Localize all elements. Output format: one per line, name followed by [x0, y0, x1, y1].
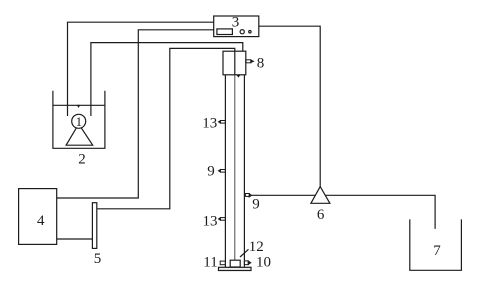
svg-text:12: 12 [249, 239, 264, 255]
pointer line 12 [240, 249, 249, 257]
wire [259, 26, 320, 187]
column right wall [243, 75, 245, 267]
wire [97, 48, 235, 208]
svg-text:13: 13 [203, 214, 218, 230]
element 5 [92, 203, 96, 249]
svg-text:9: 9 [207, 164, 215, 180]
svg-text:13: 13 [202, 115, 217, 131]
wire [57, 30, 214, 198]
beaker 2 [53, 91, 105, 149]
stub 13 upper [220, 121, 225, 124]
svg-text:1: 1 [76, 114, 83, 129]
stub 9 right [245, 194, 249, 197]
stub 13 lower [220, 218, 225, 221]
svg-text:2: 2 [78, 152, 86, 168]
svg-text:11: 11 [203, 255, 217, 271]
column head box [223, 51, 246, 75]
stub 11 [220, 261, 225, 265]
svg-text:10: 10 [256, 255, 271, 271]
svg-text:3: 3 [232, 15, 240, 31]
svg-text:8: 8 [257, 56, 265, 72]
box 12 [230, 260, 240, 267]
wire [91, 43, 243, 116]
water level line [53, 104, 105, 106]
svg-text:4: 4 [37, 213, 45, 229]
svg-text:5: 5 [94, 251, 102, 267]
controller box 3 [214, 16, 259, 37]
water level marker [77, 105, 81, 108]
flow arrow [236, 75, 240, 78]
wire [68, 22, 214, 116]
bottom plate [219, 267, 252, 270]
pump circle 1 [72, 114, 86, 128]
box 4 [19, 189, 57, 245]
svg-text:7: 7 [433, 243, 441, 259]
column left wall [224, 75, 226, 267]
valve triangle 6 [311, 187, 330, 204]
svg-text:9: 9 [252, 197, 260, 213]
stub 8 [246, 60, 251, 63]
stub 9 left [220, 170, 225, 173]
wire [251, 195, 435, 229]
pump triangle [66, 124, 93, 145]
beaker 7 [410, 219, 462, 270]
wire [57, 238, 93, 240]
wire [234, 75, 236, 261]
svg-text:6: 6 [317, 207, 325, 223]
stub 10 [244, 261, 248, 265]
